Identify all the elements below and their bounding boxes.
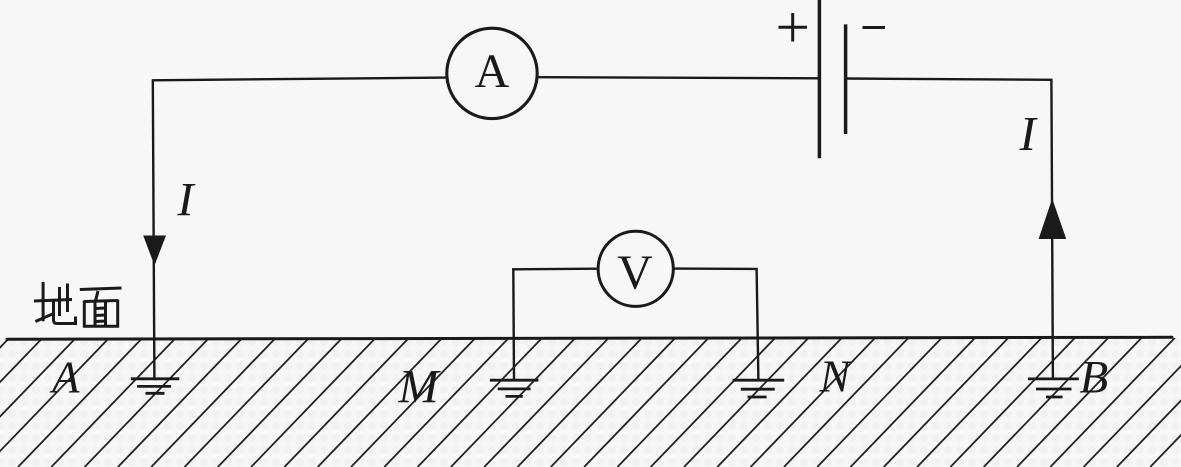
- ground surface line: [7, 337, 1172, 339]
- earth electrode symbol N: [733, 380, 785, 397]
- wire: voltmeter horizontal right: [673, 267, 758, 270]
- wire: ammeter to battery positive plate: [538, 77, 819, 78]
- earth electrode symbol B: [1028, 379, 1079, 397]
- earth electrode symbol A: [131, 379, 180, 394]
- wire: battery negative plate to top right corner: [846, 79, 1053, 80]
- svg-text:M: M: [398, 361, 442, 414]
- ammeter U1 circle: [447, 28, 537, 118]
- svg-text:I: I: [177, 174, 196, 227]
- soil halftone texture: [0, 338, 1181, 467]
- svg-text:B: B: [1080, 351, 1109, 403]
- battery positive plate (long): [818, 0, 822, 158]
- svg-text:A: A: [49, 353, 80, 403]
- battery negative plate (short): [844, 24, 848, 134]
- svg-text:A: A: [475, 45, 510, 98]
- svg-text:N: N: [819, 351, 853, 402]
- earth electrode symbol M: [490, 380, 539, 396]
- wire: top left horizontal to ammeter: [152, 78, 446, 81]
- wire: voltmeter horizontal left: [512, 268, 596, 271]
- battery plus sign: [779, 13, 808, 42]
- text 地面 (ground surface) drawn as strokes: char 面: [80, 288, 122, 328]
- wire: voltmeter right vertical (N lead): [757, 268, 759, 380]
- wire: voltmeter left vertical (M lead): [512, 268, 515, 380]
- voltmeter U2 circle: [598, 231, 673, 306]
- wire: left vertical (electrode A lead): [153, 80, 155, 379]
- wire: right vertical (electrode B lead): [1051, 79, 1053, 379]
- current arrow down (left wire): [143, 236, 166, 266]
- text 地面 (ground surface) drawn as strokes: char 地: [34, 282, 76, 324]
- hatched ground region (soil): [0, 327, 1181, 467]
- battery minus sign: [863, 26, 886, 29]
- current arrow up (right wire): [1039, 199, 1067, 240]
- svg-text:I: I: [1019, 106, 1039, 161]
- svg-text:V: V: [617, 245, 652, 300]
